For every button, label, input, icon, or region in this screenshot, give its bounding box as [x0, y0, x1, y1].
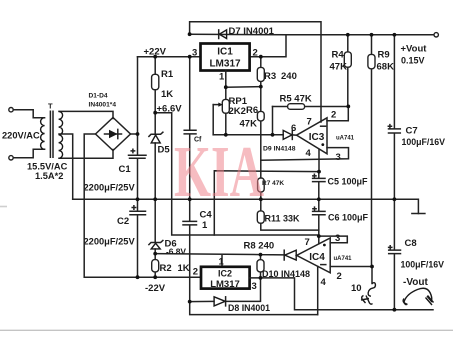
capacitor Cf	[184, 130, 202, 143]
svg-text:R2: R2	[160, 263, 172, 274]
svg-text:1: 1	[202, 220, 208, 231]
svg-text:2200μF/25V: 2200μF/25V	[84, 237, 136, 247]
svg-text:D5: D5	[158, 145, 171, 156]
wire IC3 pin3 loop to R7 top	[261, 148, 349, 161]
svg-text:-Vout: -Vout	[403, 277, 428, 288]
capacitor C7 column	[393, 35, 395, 200]
diode D8	[214, 297, 270, 313]
resistor R2	[152, 254, 190, 278]
svg-text:240: 240	[281, 71, 297, 82]
svg-text:T: T	[48, 102, 53, 111]
zener D5	[149, 113, 170, 200]
svg-text:D1-D4: D1-D4	[89, 93, 108, 100]
svg-text:-22V: -22V	[145, 283, 166, 294]
svg-text:1K: 1K	[161, 89, 173, 100]
capacitor C7	[388, 125, 445, 147]
wire IC4 pin3 loop	[319, 236, 348, 243]
diode D7 IN4001	[219, 26, 275, 39]
resistor R3	[257, 57, 297, 87]
op-amp IC3 uA741	[291, 110, 355, 164]
wire IC4 pin2 to R9	[330, 266, 372, 268]
svg-text:4: 4	[321, 277, 327, 288]
node +Vout terminal	[434, 33, 438, 37]
svg-text:R9: R9	[378, 50, 390, 61]
grey artifact lines	[0, 329, 453, 331]
svg-text:C2: C2	[117, 216, 129, 227]
svg-text:D7 IN4001: D7 IN4001	[229, 26, 275, 37]
wire bridge output stub	[131, 133, 138, 135]
svg-text:R5 47K: R5 47K	[280, 94, 312, 105]
svg-text:R11 33K: R11 33K	[265, 214, 301, 224]
wire IC4 pin4 down	[317, 266, 319, 314]
wire primary bottom lead	[13, 149, 44, 158]
resistor R4	[330, 35, 352, 107]
wire IC3 pin6 input line	[213, 134, 296, 136]
wire IC3 pin4 to C5 and left jog down	[214, 149, 319, 235]
wire D7 branch	[190, 33, 286, 36]
svg-text:LM317: LM317	[210, 279, 240, 290]
svg-text:100μF/16V: 100μF/16V	[401, 260, 445, 270]
svg-text:C5 100μF: C5 100μF	[328, 177, 369, 187]
svg-text:2K2: 2K2	[229, 106, 246, 117]
svg-text:-6.8V: -6.8V	[166, 247, 186, 257]
scribble trimmer near 10	[351, 283, 375, 304]
svg-text:IC3: IC3	[309, 132, 325, 143]
resistor R5	[273, 94, 349, 135]
wire centre tap down to mid rail	[59, 134, 73, 199]
svg-text:2: 2	[337, 271, 342, 282]
svg-text:6: 6	[291, 123, 296, 134]
resistor R8	[244, 241, 275, 278]
resistor R7	[258, 160, 285, 199]
svg-text:100μF/16V: 100μF/16V	[402, 137, 446, 147]
svg-text:220V/AC: 220V/AC	[2, 131, 40, 141]
resistor R11	[257, 199, 319, 230]
capacitor C8	[389, 238, 445, 270]
wire D8 loop	[190, 278, 261, 302]
svg-text:2200μF/25V: 2200μF/25V	[84, 183, 136, 193]
svg-text:10: 10	[351, 283, 362, 294]
svg-text:LM317: LM317	[209, 59, 241, 70]
capacitor C6	[313, 199, 369, 243]
svg-text:1.5A*2: 1.5A*2	[35, 171, 63, 181]
svg-text:D9 IN4148: D9 IN4148	[263, 146, 296, 153]
svg-text:1: 1	[219, 257, 225, 268]
svg-text:3: 3	[336, 152, 341, 163]
svg-text:+Vout: +Vout	[401, 44, 428, 55]
svg-text:47K: 47K	[240, 119, 258, 130]
svg-text:1K: 1K	[178, 263, 190, 274]
svg-text:R4: R4	[332, 50, 345, 61]
wire IC3 pin2 up to R4/R5 node	[327, 107, 348, 121]
wire IC1 pin1 down and right	[226, 71, 261, 88]
svg-text:47K: 47K	[330, 62, 348, 73]
svg-text:68K: 68K	[377, 62, 395, 73]
svg-text:2: 2	[253, 48, 258, 59]
wire +22V rail	[138, 56, 201, 58]
zener D6	[149, 199, 187, 256]
svg-text:2: 2	[193, 267, 198, 278]
capacitor C5	[313, 172, 368, 200]
svg-text:C7: C7	[406, 126, 418, 137]
svg-text:IN4001*4: IN4001*4	[89, 102, 117, 109]
svg-text:0.15V: 0.15V	[401, 56, 425, 66]
svg-text:IC1: IC1	[217, 47, 233, 58]
node input terminal top	[9, 108, 13, 112]
op-amp IC4 uA741	[297, 233, 353, 288]
capacitor C4	[183, 210, 212, 232]
resistor R1	[152, 57, 174, 113]
svg-text:3: 3	[252, 281, 257, 292]
-Vout label and scribble terminal	[403, 277, 434, 305]
svg-text:IC4: IC4	[309, 252, 325, 263]
svg-text:uA741: uA741	[334, 256, 353, 262]
IC2 LM317	[193, 257, 257, 293]
wire Cf/C4 column	[190, 57, 318, 315]
wire primary top lead	[13, 110, 44, 118]
svg-text:4: 4	[306, 148, 312, 159]
wire bridge negative vertex to -22V rail	[84, 134, 201, 277]
svg-text:R3: R3	[264, 71, 276, 82]
svg-text:15.5V/AC: 15.5V/AC	[27, 162, 68, 172]
wire +6.6V reference line down and across to IC4	[155, 113, 319, 235]
potentiometer RP1	[213, 87, 247, 135]
svg-text:C6 100μF: C6 100μF	[328, 213, 369, 223]
diode D9	[263, 130, 296, 152]
wire IC2 pin1 line with -6.8V node	[155, 254, 296, 267]
svg-text:3: 3	[192, 48, 197, 59]
svg-text:2: 2	[331, 110, 336, 121]
wire top rectangle from pin3 node to IC3 pin7 column	[190, 22, 321, 122]
wire secondary top to bridge	[59, 111, 113, 118]
node input terminal bottom	[9, 156, 13, 160]
svg-text:R1: R1	[161, 69, 174, 80]
diode D10	[262, 250, 310, 279]
svg-text:R8 240: R8 240	[244, 241, 275, 252]
transformer T	[41, 102, 63, 159]
capacitor C8 column	[393, 199, 395, 309]
svg-text:uA741: uA741	[336, 136, 355, 142]
bridge rectifier D1-D4	[89, 93, 131, 151]
svg-text:7: 7	[307, 117, 312, 128]
capacitor C2	[84, 206, 146, 247]
wire IC2 pin3 to bottom rail	[250, 278, 433, 310]
svg-text:7: 7	[305, 237, 310, 248]
resistor R6	[240, 87, 265, 161]
svg-text:KIA: KIA	[174, 131, 264, 212]
svg-text:C1: C1	[119, 164, 132, 175]
wire secondary bottom to bridge	[59, 150, 113, 159]
IC1 LM317	[192, 44, 258, 83]
capacitor C1	[84, 149, 147, 192]
wire mid (common) rail with ground stub	[73, 199, 419, 213]
svg-text:R7 47K: R7 47K	[262, 180, 284, 187]
svg-text:R6: R6	[246, 105, 258, 116]
wire left rail column	[137, 57, 139, 278]
ground	[412, 213, 425, 215]
wire R9 bottom stub and pot scribble	[371, 267, 373, 284]
svg-text:C8: C8	[405, 238, 417, 249]
svg-text:D8 IN4001: D8 IN4001	[228, 303, 270, 313]
wire IC1 pin2 jog up to +Vout rail	[250, 35, 434, 57]
svg-text:IC2: IC2	[218, 269, 232, 279]
resistor R9	[368, 35, 394, 267]
svg-text:1: 1	[219, 72, 225, 83]
